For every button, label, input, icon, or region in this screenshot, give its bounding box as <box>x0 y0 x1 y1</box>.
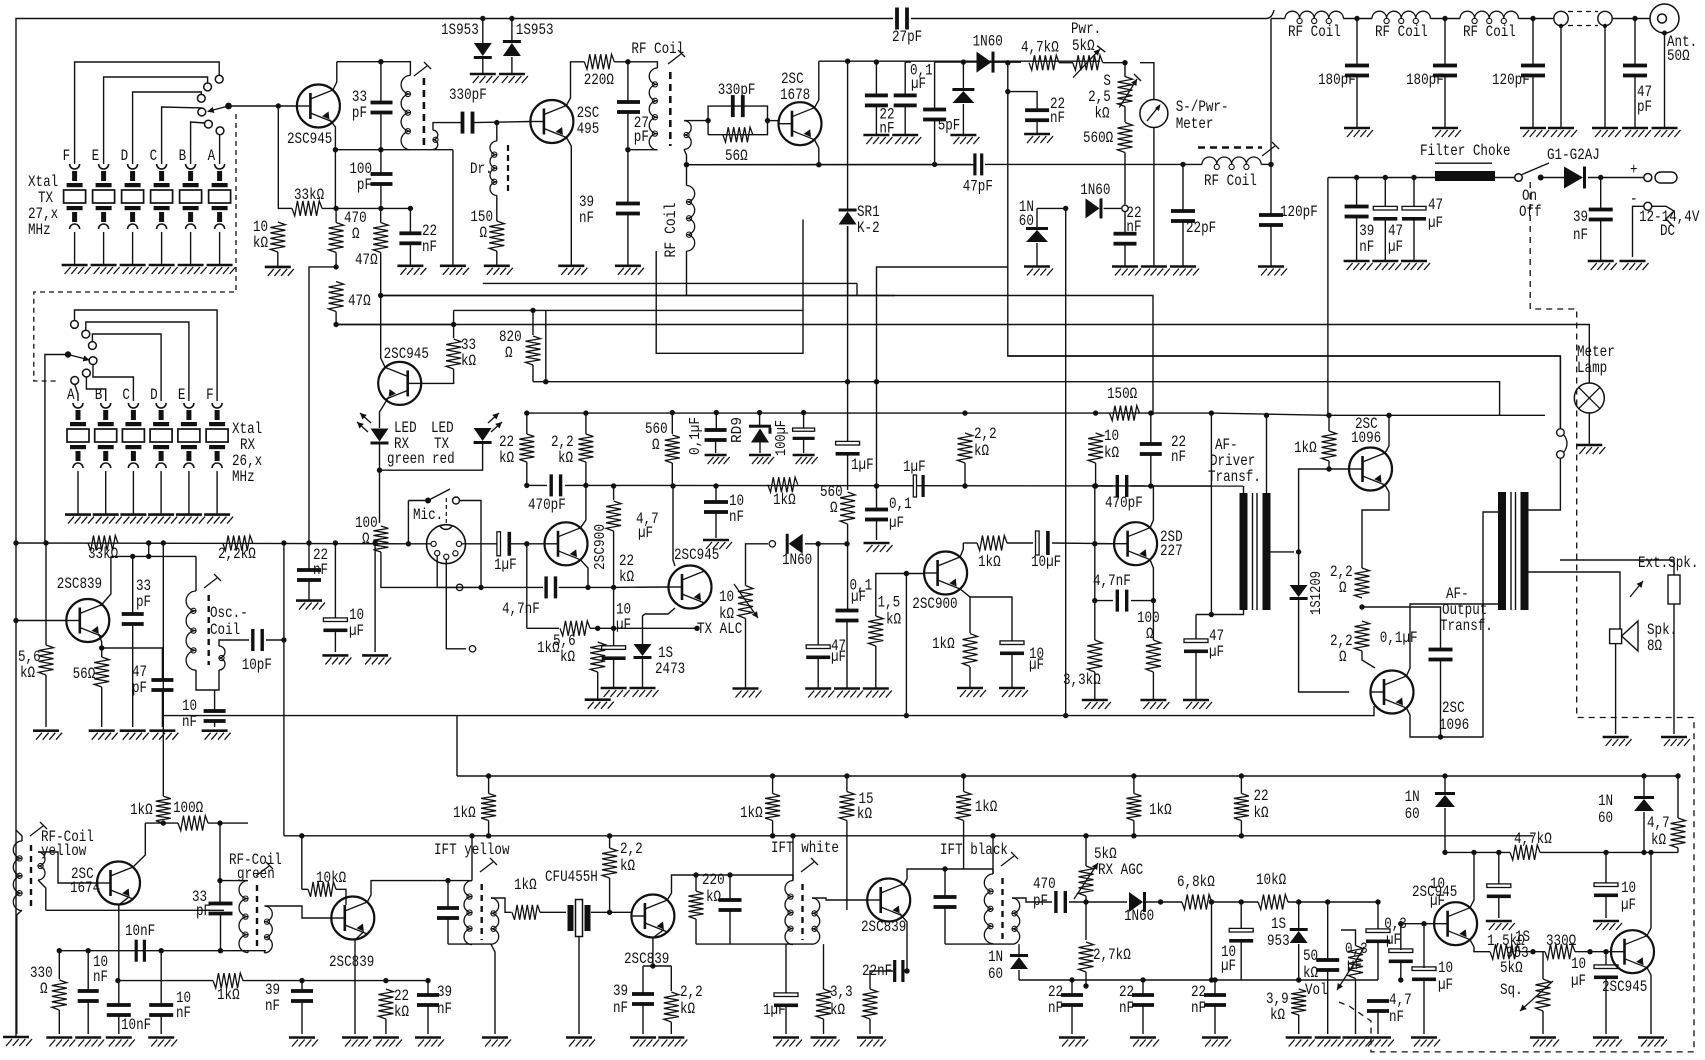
resistor 10kOhm det <box>1258 895 1288 910</box>
ground bypass x375 <box>362 655 391 664</box>
wire 1k if5 top <box>1133 776 1135 794</box>
ground meter lamp <box>1576 445 1605 454</box>
svg-text:56Ω: 56Ω <box>725 147 748 165</box>
wire 1N60 det2 top <box>1018 944 1020 956</box>
rail y776 <box>457 775 1678 777</box>
svg-text:120pF: 120pF <box>1492 71 1530 89</box>
node det 2 <box>1005 89 1010 94</box>
wire SR1 vertical <box>847 61 849 210</box>
wire x1094 chain2 <box>1094 486 1096 544</box>
wire 4,7k sq2 bottom <box>1677 848 1679 852</box>
wire y980 ext <box>386 980 428 982</box>
svg-text:µF: µF <box>349 622 364 640</box>
svg-text:47Ω: 47Ω <box>355 251 378 269</box>
capacitor 330pF driver <box>731 95 745 117</box>
ground 0,1uF bias <box>705 455 730 464</box>
bias rail y415c <box>1329 414 1545 416</box>
resistor 220 Ohm <box>584 54 614 69</box>
wire agc node link <box>1037 207 1066 209</box>
node 15k rail <box>844 773 849 778</box>
wire RC to Q3 base <box>768 120 779 122</box>
wire 100pF top lead <box>380 150 382 174</box>
svg-text:60: 60 <box>1019 212 1034 230</box>
svg-text:1kΩ: 1kΩ <box>978 553 1001 571</box>
RF choke Dr. <box>490 141 497 195</box>
wire 0,1uF link <box>1362 607 1441 649</box>
diode 1N60 series <box>977 52 995 73</box>
svg-text:pF: pF <box>136 593 151 611</box>
RF coil TX trimmer <box>668 50 685 64</box>
ground 22pF <box>1170 267 1199 276</box>
resistor 1kOhm af em <box>963 634 978 667</box>
capacitor 39nF agc <box>291 989 313 1003</box>
wire crystal F to switch contact <box>75 62 220 164</box>
IFT white secondary <box>812 898 820 944</box>
wire RX pivot out <box>45 355 68 544</box>
bus rail y324 <box>336 324 454 326</box>
node 33pF rf <box>217 820 222 825</box>
wire 22nF-a gnd lead <box>875 106 877 135</box>
svg-text:µF: µF <box>911 75 926 93</box>
wire 0,1 alc gnd <box>846 621 848 689</box>
wire 3,3k gnd <box>1094 672 1096 700</box>
wire af emitter <box>960 589 970 633</box>
wire 1k rf bottom <box>162 822 164 824</box>
wire 47uF af gnd <box>1195 652 1197 700</box>
node if2 em <box>650 963 655 968</box>
ground alc pot <box>733 689 762 698</box>
resistor 100 Ohm mic <box>373 526 388 552</box>
wire Q2 emitter <box>566 138 571 266</box>
AF rail y486 <box>586 484 1243 487</box>
svg-text:1kΩ: 1kΩ <box>975 798 998 816</box>
svg-text:B: B <box>179 147 187 165</box>
resistor 2,2kOhm if2 <box>602 848 617 878</box>
ground if3 em <box>857 1038 886 1047</box>
node x161 y950 <box>159 948 164 953</box>
wire 4,7k sq2 top <box>1677 776 1679 818</box>
wire driver prim bottom <box>1196 610 1244 615</box>
svg-text:39: 39 <box>613 982 628 1000</box>
svg-text:S-/Pwr-: S-/Pwr- <box>1176 98 1229 116</box>
wire 39nF agc2 gnd <box>427 1005 429 1034</box>
crystal Xtal RX E <box>178 403 200 468</box>
rail y324 segment <box>336 324 454 326</box>
wire 3,3k gnd <box>823 1019 825 1034</box>
wire 10nF mod lead <box>715 486 717 501</box>
resistor 560 Ohm meter <box>1118 123 1133 153</box>
wire af base <box>876 574 924 617</box>
node 10nF mod <box>713 483 718 488</box>
svg-text:47Ω: 47Ω <box>348 292 371 310</box>
ceramic filter CFU455H <box>568 900 591 937</box>
resistor 2,2kOhm rx bias <box>223 536 253 551</box>
wire 10nF rxosc top <box>214 690 216 710</box>
resistor 10kOhm bias <box>1088 433 1103 463</box>
node 47pF rxosc <box>99 645 104 650</box>
RX osc coil primary <box>186 591 196 670</box>
speaker symbol <box>1610 621 1638 651</box>
line ift b bottom <box>945 943 1012 945</box>
svg-text:µF: µF <box>1428 214 1443 232</box>
wire switch to Q1 base <box>229 105 297 107</box>
ground RX crystal C <box>120 515 149 524</box>
mic rail <box>408 543 431 545</box>
svg-text:F: F <box>63 147 71 165</box>
node 5,6k top <box>43 540 48 545</box>
AF output core a <box>1510 492 1512 610</box>
svg-text:RF Coil: RF Coil <box>1288 23 1341 41</box>
node 22nF top <box>408 206 413 211</box>
wire 330 lead <box>58 951 60 979</box>
svg-text:µF: µF <box>1347 956 1362 974</box>
svg-text:1kΩ: 1kΩ <box>1149 801 1172 819</box>
svg-text:kΩ: kΩ <box>461 352 476 370</box>
transistor Q4 2SC945 RX osc <box>378 362 421 405</box>
capacitor 0,1uF alc <box>836 609 859 623</box>
svg-text:MHz: MHz <box>28 221 51 239</box>
ground 47uF b <box>1401 261 1430 270</box>
wire cfu gnd <box>578 937 580 1035</box>
TX switch arm <box>208 106 229 113</box>
bus rail y382 left up <box>545 310 547 381</box>
meter switch contact a <box>1557 429 1565 437</box>
svg-text:Coil: Coil <box>210 621 240 639</box>
svg-text:nF: nF <box>313 561 328 579</box>
svg-text:2,2kΩ: 2,2kΩ <box>218 545 256 563</box>
svg-text:pF: pF <box>1637 98 1652 116</box>
capacitor 39nF if2 <box>632 992 654 1006</box>
wire 470pF link <box>1095 485 1113 487</box>
svg-text:D: D <box>150 386 158 404</box>
wire 220 to coil <box>614 62 657 68</box>
wire ift y in <box>438 880 472 882</box>
node 22pF rail <box>1180 162 1185 167</box>
wire Q1 collector <box>333 62 337 90</box>
node 33pF rf c <box>218 948 223 953</box>
svg-text:K-2: K-2 <box>857 219 880 237</box>
svg-text:nF: nF <box>93 968 108 986</box>
svg-text:Ω: Ω <box>830 499 838 517</box>
node ift y cap <box>445 878 450 883</box>
wire 1S1209 up <box>1299 469 1350 552</box>
node sq line c <box>1641 850 1646 855</box>
power rail <box>1328 177 1435 179</box>
wire 5,6k gnd <box>597 672 599 700</box>
capacitor 180pF 2 <box>1433 64 1457 78</box>
node 1k if1 rail <box>486 773 491 778</box>
wire 4.7k to 5k <box>1059 62 1073 64</box>
IFT white primary <box>785 881 793 945</box>
wire 612 to 628 <box>613 587 615 628</box>
wire 33k right rail <box>322 207 410 209</box>
node if cap b <box>727 872 732 877</box>
svg-text:G1-G2AJ: G1-G2AJ <box>1547 146 1600 164</box>
plus terminal <box>1644 174 1652 182</box>
wire x876 down2 <box>876 520 878 540</box>
wire rxosc emitter <box>99 634 102 657</box>
wire 560b to cap <box>847 524 849 610</box>
wire 33pF rf lead2 <box>219 881 221 903</box>
wire af em gnd <box>969 667 971 688</box>
ground 1N60 agc <box>1024 267 1053 276</box>
wire 330pF to Q2 base <box>474 122 531 123</box>
potentiometer 5kOhm RX AGC <box>1079 866 1094 896</box>
capacitor 10uF det <box>1229 928 1253 942</box>
svg-text:kΩ: kΩ <box>1270 1006 1285 1024</box>
wire 10uF sq gnd <box>1605 896 1607 918</box>
TX channel switch contact C <box>198 108 206 116</box>
AF driver core line b <box>1256 493 1258 610</box>
capacitor if white par <box>719 898 742 912</box>
wire crystal E to switch contact <box>104 77 208 164</box>
RX bias rail <box>16 542 408 545</box>
node 22k agc <box>383 978 388 983</box>
ground trimmer L <box>1548 128 1577 137</box>
IFT black trimmer <box>1001 852 1018 866</box>
wire 0,3b top <box>1400 924 1402 950</box>
wire 22nF if link <box>874 970 893 972</box>
resistor 2,7kOhm agc <box>1079 942 1094 972</box>
wire 10uF if gnd <box>1498 897 1500 918</box>
svg-text:33kΩ: 33kΩ <box>294 186 325 204</box>
capacitor 0,3uF sq b <box>1389 949 1413 963</box>
wire 1k if5 bottom <box>1133 821 1135 836</box>
node 2SD emitter <box>1151 598 1156 603</box>
crystal Xtal RX D <box>150 403 172 468</box>
wire ift b sec out <box>1012 898 1052 902</box>
svg-text:nF: nF <box>1048 999 1063 1017</box>
node 1S1209 tap <box>1296 549 1301 554</box>
on-off switch pole <box>1538 175 1544 181</box>
node if3 em <box>904 968 909 973</box>
svg-text:10: 10 <box>1438 959 1453 977</box>
mic pin 4 <box>453 551 458 556</box>
node 47nF left <box>1092 598 1097 603</box>
wire 22k mic top <box>526 413 528 434</box>
capacitor 47pF rxosc <box>151 678 173 692</box>
node 47pF ant <box>1632 16 1637 21</box>
wire minus left <box>1633 206 1644 257</box>
svg-text:6,8kΩ: 6,8kΩ <box>1177 873 1215 891</box>
node ant 1 <box>1354 16 1359 21</box>
capacitor 47uF alc <box>806 645 830 659</box>
svg-text:495: 495 <box>577 120 600 138</box>
wire 120pF down <box>1270 164 1272 215</box>
wire 180pF-1 lead <box>1356 19 1358 66</box>
IFT yellow primary <box>464 881 472 945</box>
wire 1uF if gnd <box>785 1006 787 1034</box>
PTT contact <box>453 497 460 504</box>
wire x161 drop <box>160 951 162 1004</box>
wire mic q emitter <box>581 560 589 588</box>
resistor 1kOhm if2 <box>512 905 540 920</box>
svg-text:+: + <box>1630 161 1638 179</box>
left frame rail wire <box>16 19 893 1038</box>
wire rf coil3 down <box>686 165 688 186</box>
wire 10nF rf3 gnd <box>160 1016 162 1034</box>
filter choke top line <box>1435 162 1492 164</box>
wire 47ohm1 to node 295 <box>380 253 382 296</box>
wire 2,7k bottom <box>1085 972 1087 986</box>
wire det node down <box>1007 63 1009 92</box>
svg-text:kΩ: kΩ <box>1095 105 1110 123</box>
wire 22nF-a lead <box>875 62 877 95</box>
svg-text:2,2: 2,2 <box>974 425 997 443</box>
wire 47uF alc lead <box>817 544 819 646</box>
svg-text:kΩ: kΩ <box>1651 831 1666 849</box>
wire 100ohm lead <box>1152 601 1154 640</box>
wire 1N60 shunt lead <box>962 62 964 89</box>
svg-text:4,7: 4,7 <box>1389 991 1412 1009</box>
antenna connector outer <box>1650 4 1679 33</box>
svg-text:4,7kΩ: 4,7kΩ <box>1021 39 1059 57</box>
capacitor 120pF ant <box>1521 64 1545 78</box>
wire x1211 down <box>1210 413 1212 486</box>
RX channel switch contact E <box>82 330 90 338</box>
ground 47uF a <box>1372 261 1401 270</box>
wire 2,2k if2 top <box>609 836 611 848</box>
rail y823 <box>145 822 178 824</box>
RX switch pivot <box>65 351 71 357</box>
svg-text:1S953: 1S953 <box>441 21 479 39</box>
wire 33pF ift lead <box>447 881 449 907</box>
resistor 3,3kOhm <box>1087 640 1102 672</box>
IFT yellow core <box>481 884 483 940</box>
RF-coil green secondary <box>264 906 272 953</box>
wire 5,6k rxosc gnd <box>45 675 47 727</box>
node alc filter <box>816 541 821 546</box>
ground 10nF rf2 <box>75 1038 104 1047</box>
wire 1N60 sq2 top <box>1643 776 1645 798</box>
wire Q4 emitter to LED <box>380 397 389 428</box>
node 10uF rx <box>333 540 338 545</box>
AF output transformer winding L <box>1498 492 1506 610</box>
wire 560-3 down <box>671 463 673 486</box>
capacitor 0.1uF rail <box>894 94 917 108</box>
node 22k bias <box>962 410 967 415</box>
node Dr choke tap <box>494 120 499 125</box>
svg-text:Transf.: Transf. <box>1440 617 1493 635</box>
wire bypass x375 <box>374 543 376 652</box>
svg-text:56Ω: 56Ω <box>73 665 96 683</box>
wire 2,2k if2 bottom <box>609 878 611 912</box>
wire det line a <box>1069 901 1127 903</box>
svg-text:Ω: Ω <box>362 530 370 548</box>
capacitor 5pF <box>923 108 946 122</box>
wire 27pF bottom lead <box>627 111 629 150</box>
RF coil TX secondary <box>684 121 691 150</box>
wire det line b <box>1145 901 1182 903</box>
ext spk jack <box>1668 575 1680 604</box>
svg-text:10: 10 <box>1104 427 1119 445</box>
node 470pF mic l <box>524 483 529 488</box>
ground 10uF sq <box>1593 921 1622 930</box>
resistor 1,5kOhm af <box>868 616 883 646</box>
svg-text:nF: nF <box>1389 1008 1404 1026</box>
node 22k top <box>611 483 616 488</box>
wire 47nF link <box>1095 600 1113 602</box>
wire meter sw drop <box>1559 356 1561 429</box>
wire 33k rx to base <box>421 369 453 383</box>
resistor 470 Ohm <box>329 223 344 253</box>
wire 2,2k mic top <box>585 413 587 434</box>
ground 56 Ohm <box>89 731 118 740</box>
RF coil detector trimmer <box>1262 142 1279 156</box>
wire 1S1209 to base2 <box>1299 600 1350 692</box>
svg-text:1µF: 1µF <box>851 456 874 474</box>
wire rf sec top <box>684 120 708 122</box>
svg-text:4,7nF: 4,7nF <box>502 600 540 618</box>
node 5,6k <box>595 626 600 631</box>
wire 1N60 det2 bottom <box>1018 970 1020 980</box>
svg-text:RF Coil: RF Coil <box>662 203 680 258</box>
wire 22nF det 1 gnd <box>1142 1005 1144 1034</box>
TX channel switch contact D <box>197 94 205 102</box>
ground 10k <box>265 267 294 276</box>
ground 39nF agc <box>289 1038 318 1047</box>
node 0,1uF af bottom <box>1438 734 1443 739</box>
wire 1S953 sq bottom <box>1298 944 1300 980</box>
node emitter rail a <box>333 147 338 152</box>
wire det line d <box>1288 901 1378 903</box>
wire rxosc to rail <box>148 543 150 556</box>
crystal Xtal TX A <box>209 164 231 229</box>
IFT white core <box>801 884 803 940</box>
TX channel switch contact F <box>215 75 223 83</box>
wire choke to switch <box>1495 177 1515 179</box>
svg-text:1kΩ: 1kΩ <box>217 986 240 1004</box>
svg-text:1096: 1096 <box>1351 429 1381 447</box>
wire rail to meter <box>1140 63 1154 99</box>
wire ant coil top <box>16 830 22 841</box>
wire 56ohm gnd <box>101 687 103 727</box>
diode 1N60 agc2 <box>1086 198 1103 218</box>
wire mixer emitter <box>355 932 364 1035</box>
ground RX crystal A <box>65 515 94 524</box>
svg-text:1678: 1678 <box>780 86 810 104</box>
svg-text:kΩ: kΩ <box>857 805 872 823</box>
rail y715 to y776 link <box>456 716 458 776</box>
line 1k y628b <box>590 627 697 629</box>
svg-text:1096: 1096 <box>1439 716 1469 734</box>
svg-text:1S: 1S <box>1271 915 1286 933</box>
wire af em cap link <box>970 597 1012 641</box>
wire 10uF sq3 gnd <box>1423 980 1425 1034</box>
resistor 33kOhm rx bias <box>88 536 118 551</box>
node ant 3 <box>1530 16 1535 21</box>
ground 3,9k <box>1286 1038 1315 1047</box>
wire 10uF rx gnd <box>334 631 336 652</box>
node mixer inj top <box>281 540 286 545</box>
ground 33pF rxosc <box>120 731 149 740</box>
wire black cap lead <box>944 869 946 896</box>
diode G1-G2AJ <box>1564 167 1586 189</box>
node sq2 rail <box>1641 773 1646 778</box>
wire 2,2k bias down <box>964 463 966 486</box>
svg-text:1,5kΩ: 1,5kΩ <box>1487 932 1525 950</box>
node rxosc fb <box>146 554 151 559</box>
svg-text:nF: nF <box>1573 226 1588 244</box>
resistor 22kOhm mic bias <box>519 434 534 462</box>
node 22nF det 2 <box>1212 977 1217 982</box>
node 22k if rail <box>1239 773 1244 778</box>
node frame bias <box>13 540 18 545</box>
RX switch arm <box>68 355 90 362</box>
svg-text:µF: µF <box>1386 931 1401 949</box>
svg-text:2SC945: 2SC945 <box>674 546 719 564</box>
power rail corner down <box>1327 178 1329 416</box>
